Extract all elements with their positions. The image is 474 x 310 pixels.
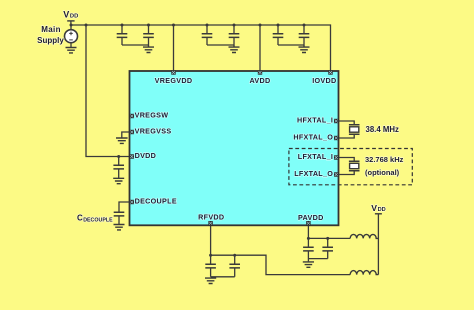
pin VREGVDD (top) [155,70,193,85]
svg-text:DVDD: DVDD [135,151,157,160]
wire top supply bus [71,25,331,70]
svg-text:IOVDD: IOVDD [312,76,336,85]
wire VDD tick to bus [70,21,72,25]
wire DECOUPLE to capacitor [119,202,130,212]
pin IOVDD (top) [312,70,336,85]
svg-text:LFXTAL_O: LFXTAL_O [294,169,333,178]
pin DECOUPLE (left) [130,196,177,205]
svg-text:V: V [63,10,69,20]
ground (main supply) [66,48,77,53]
wire joining cap pair 3 [278,44,304,46]
wire joining RFVDD caps [211,276,235,278]
svg-text:PAVDD: PAVDD [298,213,324,222]
svg-text:VREGVSS: VREGVSS [135,126,172,135]
ground (PAVDD caps) [303,262,314,267]
svg-text:V: V [371,203,377,213]
junction dot PAVDD net [307,237,310,240]
pin DVDD (left) [130,151,157,160]
svg-text:HFXTAL_I: HFXTAL_I [297,116,333,125]
svg-text:AVDD: AVDD [249,76,270,85]
wire bus to VREGVDD pin [173,25,175,70]
wire source to ground [70,43,72,48]
svg-text:LFXTAL_I: LFXTAL_I [298,152,333,161]
ground (RFVDD caps) [205,278,216,283]
power VDD label (right) [371,203,385,213]
inductor L2 (bottom) [350,271,378,275]
capacitor (PAVDD cap A) [303,247,314,261]
svg-text:DD: DD [378,207,386,213]
svg-text:VREGVDD: VREGVDD [155,76,193,85]
IC block [130,71,339,225]
wire bus to AVDD pin [259,25,261,70]
pin HFXTAL_I (right) [297,116,338,125]
pin HFXTAL_O (right) [293,133,338,142]
voltage source Main Supply [65,25,78,43]
wire HFXTAL_I to crystal [339,121,355,124]
pin VREGSW (left) [130,110,169,119]
svg-text:DECOUPLE: DECOUPLE [83,218,113,224]
ground (cap pair 3) [299,45,310,53]
wire LFXTAL_O to crystal [339,171,355,174]
svg-text:38.4 MHz: 38.4 MHz [366,125,399,134]
svg-text:Supply: Supply [37,36,64,45]
bypass capacitor pair 1 (left cap) [117,25,128,45]
pin AVDD (top) [249,70,270,85]
svg-text:RFVDD: RFVDD [198,212,224,221]
ground (CDECOUPLE) [114,225,125,230]
junction dot RFVDD net [209,254,212,257]
svg-text:C: C [77,214,83,223]
wire RFVDD net to bottom inductor [211,255,351,274]
label Main Supply [37,25,64,45]
ground (DVDD cap) [113,178,124,183]
pin PAVDD (bottom) [298,213,324,225]
wire VDD rail (right) [377,214,379,275]
bypass capacitor pair 3 (left cap) [273,25,284,45]
bypass capacitor pair 3 (right cap) [299,25,310,45]
junction dots on top bus [70,24,306,27]
wire HFXTAL_O to crystal [339,135,355,138]
power VDD bar (top-left) [67,20,74,22]
label CDECOUPLE [77,214,113,224]
capacitor (RFVDD cap C) [205,264,216,277]
wire VREGVSS to ground [122,132,130,138]
power VDD bar (right) [375,213,382,215]
junction dot on DVDD wire [117,155,120,158]
ground (cap pair 1) [143,45,154,53]
crystal Y1 38.4 MHz [349,125,360,135]
capacitor (PAVDD cap B) [322,238,333,258]
wire PAVDD down [307,226,309,247]
junction dot (cap D top) [233,254,236,257]
pin RFVDD (bottom) [198,212,224,225]
ground (cap pair 2) [229,45,240,53]
wire LFXTAL_I to crystal [339,158,355,161]
bypass capacitor pair 2 (right cap) [229,25,240,45]
junction dot (cap B top) [326,237,329,240]
dashed optional box [289,149,412,185]
svg-text:VREGSW: VREGSW [135,110,169,119]
pin LFXTAL_I (right) [298,152,339,161]
svg-text:HFXTAL_O: HFXTAL_O [293,133,333,142]
power VDD label (top-left) [63,10,78,20]
capacitor (DVDD decoupling) [113,157,124,179]
crystal Y2 32.768 kHz [349,161,360,171]
wire joining cap pair 1 [122,44,149,46]
svg-text:32.768 kHz: 32.768 kHz [365,155,404,164]
ground (VREGVSS) [116,138,128,143]
wire RFVDD down [210,226,212,264]
inductor L1 (top) [350,234,378,238]
wire joining PAVDD caps [308,258,327,260]
capacitor CDECOUPLE [114,212,125,224]
bypass capacitor pair 1 (right cap) [143,25,154,45]
wire joining cap pair 2 [207,44,234,46]
svg-text:(optional): (optional) [365,168,400,177]
pin LFXTAL_O (right) [294,169,338,178]
svg-text:DECOUPLE: DECOUPLE [135,196,177,205]
svg-text:Main: Main [41,25,61,34]
wire PAVDD net to top inductor [308,237,350,239]
wire bus to DVDD pin [86,25,130,157]
pin VREGVSS (left) [130,126,172,135]
bypass capacitor pair 2 (left cap) [202,25,213,45]
svg-text:DD: DD [70,14,78,20]
capacitor (RFVDD cap D) [229,255,240,277]
